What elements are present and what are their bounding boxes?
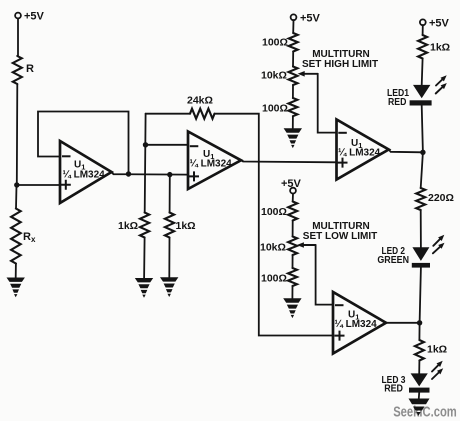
wire	[16, 84, 19, 185]
resistor 1k (U1b - to gnd)	[140, 213, 149, 238]
resistor Rx	[11, 209, 21, 264]
wire	[17, 184, 60, 186]
node (U1c out / LED rail)	[420, 150, 425, 155]
wire (24k feedback top)	[146, 113, 190, 115]
svg-text:SET LOW LIMIT: SET LOW LIMIT	[303, 231, 377, 242]
resistor 100 (bottom)	[288, 98, 297, 116]
wire	[420, 210, 422, 247]
wire	[169, 175, 171, 213]
svg-text:10kΩ: 10kΩ	[261, 70, 287, 82]
svg-text:+5V: +5V	[300, 12, 321, 24]
LED 3 RED	[411, 373, 428, 386]
wire	[422, 106, 423, 153]
resistor 1k (LED3)	[415, 340, 424, 361]
node (U1b + input / 1k)	[167, 172, 172, 177]
wiper arrow	[301, 73, 318, 75]
wire (U1b output to U1c +)	[241, 160, 337, 162]
+5V terminal (high limit pot)	[291, 14, 297, 20]
svg-text:RED: RED	[384, 383, 403, 395]
wire	[292, 52, 294, 67]
wire	[418, 361, 420, 374]
wiper arrow	[300, 244, 316, 246]
resistor 100 (top)	[288, 202, 297, 221]
ground	[135, 278, 153, 298]
wire	[292, 194, 294, 202]
ground	[160, 277, 178, 297]
wire	[292, 20, 294, 33]
op-amp U1c minus	[339, 132, 346, 134]
wire	[215, 114, 259, 162]
wire (U1a output to U1b +)	[112, 172, 189, 174]
op-amp U1d minus	[336, 304, 343, 306]
wire (U1a feedback loop)	[38, 112, 129, 175]
svg-text:220Ω: 220Ω	[428, 192, 454, 204]
resistor 24k	[190, 109, 215, 119]
svg-text:¼ LM324: ¼ LM324	[63, 170, 106, 181]
op-amp U1b (gain stage)	[188, 132, 241, 190]
LED1 RED	[413, 85, 430, 98]
svg-text:¼ LM324: ¼ LM324	[338, 148, 381, 159]
wire (U1d output)	[386, 322, 420, 324]
wire (wiper to U1c -)	[318, 74, 337, 133]
resistor 1k (LED1)	[418, 35, 427, 59]
wire	[420, 268, 421, 323]
wire (minus input)	[146, 144, 189, 146]
wire	[168, 238, 170, 278]
wire	[17, 18, 19, 56]
resistor 220	[416, 188, 425, 210]
LED1 light arrows	[436, 79, 443, 86]
resistor 1k (U1b + to gnd)	[165, 213, 174, 238]
svg-text:RED: RED	[388, 96, 407, 108]
ground (LED3)	[409, 399, 430, 405]
ground	[284, 128, 302, 148]
node (divider to op-amp U1a + input)	[14, 182, 19, 187]
wire (branch down to U1d +)	[259, 162, 333, 336]
wire	[418, 393, 420, 399]
wire	[15, 264, 17, 278]
wire	[418, 323, 420, 340]
wire	[292, 255, 294, 268]
svg-text:SET HIGH LIMIT: SET HIGH LIMIT	[302, 59, 378, 70]
svg-text:1kΩ: 1kΩ	[118, 220, 138, 232]
op-amp U1a minus	[63, 155, 70, 157]
ground	[7, 278, 25, 298]
+5V terminal (LED rail)	[420, 19, 426, 25]
LED 2 GREEN	[412, 247, 429, 261]
svg-text:1kΩ: 1kΩ	[176, 220, 196, 232]
svg-text:10kΩ: 10kΩ	[260, 241, 286, 253]
op-amp U1a (buffer)	[60, 141, 112, 203]
op-amp U1c plus	[339, 159, 347, 167]
op-amp U1a plus	[62, 181, 70, 189]
svg-text:100Ω: 100Ω	[261, 206, 287, 218]
wire	[291, 286, 293, 298]
wire	[292, 221, 294, 237]
svg-text:1kΩ: 1kΩ	[430, 42, 450, 54]
svg-text:100Ω: 100Ω	[262, 37, 288, 49]
svg-text:SeekIC.com: SeekIC.com	[393, 405, 457, 421]
svg-text:24kΩ: 24kΩ	[187, 95, 213, 107]
wire	[292, 116, 294, 128]
wire	[421, 152, 423, 188]
resistor R	[13, 56, 22, 84]
ground	[283, 298, 301, 318]
svg-text:+5V: +5V	[24, 11, 45, 23]
wire	[292, 85, 294, 98]
wire (U1c output)	[389, 150, 423, 153]
svg-text:100Ω: 100Ω	[262, 103, 288, 115]
wire	[15, 185, 18, 209]
op-amp U1c (high comparator)	[337, 120, 389, 180]
op-amp U1b plus	[190, 172, 198, 180]
resistor 100 (top)	[289, 33, 298, 52]
node (U1a output / feedback)	[126, 171, 131, 176]
svg-text:¼ LM324: ¼ LM324	[190, 159, 233, 170]
svg-text:+5V: +5V	[429, 17, 450, 29]
wire	[143, 238, 146, 279]
resistor 100 (bottom)	[288, 268, 297, 286]
op-amp U1d (low comparator)	[333, 292, 386, 354]
wire	[422, 25, 424, 35]
svg-text:R: R	[26, 63, 34, 75]
wire (U1b minus node vertical)	[144, 114, 147, 213]
LED2 light arrows	[433, 238, 441, 246]
node (U1d out / LED rail)	[417, 320, 422, 325]
+5V terminal (top left)	[15, 13, 21, 19]
wire (wiper to U1d -)	[316, 245, 333, 305]
LED3 light arrows	[432, 364, 439, 371]
svg-text:1kΩ: 1kΩ	[427, 344, 447, 356]
potentiometer 10k (set high limit)	[289, 67, 298, 86]
svg-text:GREEN: GREEN	[377, 254, 409, 266]
potentiometer 10k (set low limit)	[288, 237, 297, 256]
svg-text:100Ω: 100Ω	[261, 273, 287, 285]
op-amp U1b minus	[191, 145, 198, 147]
svg-text:¼ LM324: ¼ LM324	[335, 319, 378, 330]
wire	[421, 59, 424, 86]
op-amp U1d plus	[336, 332, 344, 340]
node (feedback / minus input)	[143, 142, 148, 147]
